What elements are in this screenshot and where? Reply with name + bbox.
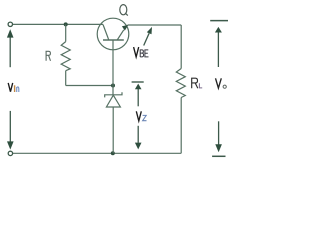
zener diode cathode bar with bent ends <box>105 92 122 97</box>
Vo bottom reference bar <box>212 155 225 157</box>
label Vin <box>8 83 19 92</box>
transistor Q collector line <box>103 25 109 41</box>
wire right branch upper <box>180 25 182 69</box>
Vin upper arrow shaft <box>9 37 11 67</box>
Vo upper arrowhead (up) <box>215 27 222 33</box>
Vz top reference bar <box>132 81 144 83</box>
label R <box>46 51 50 61</box>
wire top rail left segment <box>13 23 103 25</box>
resistor R zigzag <box>61 42 70 71</box>
label RL <box>192 78 203 88</box>
node junction R to top rail <box>64 22 68 26</box>
Vin upper arrowhead (up) <box>7 29 14 37</box>
transistor Q emitter line <box>117 30 124 40</box>
Vo top reference bar <box>210 20 228 22</box>
wire R branch upper lead <box>65 24 67 41</box>
wire bottom rail <box>13 152 181 154</box>
label Vo <box>216 78 227 88</box>
label Q <box>120 5 128 16</box>
Vin lower arrowhead (down) <box>7 141 14 149</box>
Vo upper arrow shaft <box>217 32 219 67</box>
wire right branch lower <box>180 98 182 154</box>
zener diode triangle <box>106 95 120 107</box>
transistor Q body circle <box>97 18 129 50</box>
label Vz <box>136 111 146 121</box>
VBE arrowhead (up-right) <box>147 27 152 34</box>
Vin lower arrow shaft <box>9 111 11 143</box>
node junction base/zener <box>111 84 115 88</box>
Vz upper arrow shaft <box>137 89 139 107</box>
transistor Q base lead <box>112 40 114 86</box>
Vz lower arrow shaft <box>137 126 139 143</box>
wire zener lower lead <box>112 107 114 153</box>
Vz lower arrowhead (down) <box>135 143 142 150</box>
resistor RL zigzag <box>176 69 185 98</box>
wire zener upper lead <box>112 86 114 95</box>
input terminal bottom-left <box>8 151 12 155</box>
VBE arrow shaft <box>144 33 149 45</box>
transistor Q base bar <box>103 39 124 41</box>
node junction zener to bottom rail <box>111 151 115 155</box>
wire base node horizontal <box>66 85 113 87</box>
wire R branch lower lead <box>65 71 67 86</box>
wire top rail right segment <box>128 24 182 26</box>
Vo lower arrow shaft <box>218 121 220 145</box>
Vz upper arrowhead (up) <box>135 84 142 90</box>
label VBE <box>134 47 149 57</box>
input terminal top-left <box>8 22 12 26</box>
Vo lower arrowhead (down) <box>215 144 222 152</box>
transistor Q emitter arrowhead <box>122 25 128 31</box>
